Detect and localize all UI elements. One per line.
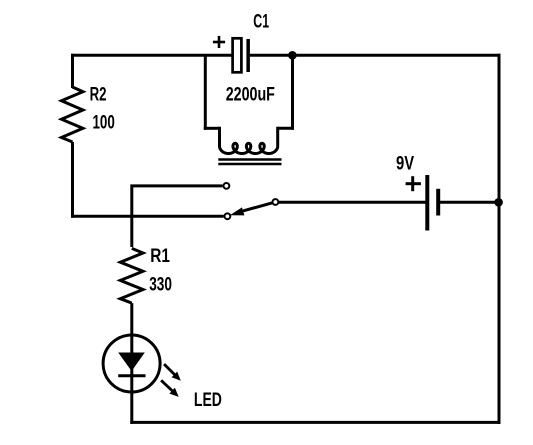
wire top rail right segment [250,54,501,57]
svg-text:R1: R1 [150,246,170,267]
svg-text:C1: C1 [253,12,269,33]
svg-text:330: 330 [149,275,172,296]
LED D1 circle [103,335,160,392]
resistor R1 [120,248,143,303]
junction dot battery / right rail [494,198,503,207]
svg-text:LED: LED [194,390,222,411]
switch pivot contact [273,199,279,205]
wire capacitor loop right step [278,127,294,130]
wire capacitor loop right vertical [291,55,294,130]
LED light arrow 2 [161,380,179,397]
relay core line 1 [218,158,281,161]
wire switch upper (to NC contact) [132,186,223,247]
wire capacitor loop left vertical [204,55,207,130]
battery B1 negative plate [436,189,440,216]
wire top rail left segment [71,54,232,57]
svg-text:R2: R2 [90,85,107,106]
relay coil L1 [220,127,278,154]
battery B1 positive plate [425,175,429,231]
wire bottom rail [130,421,500,424]
wire switch lower (left rail to NO contact) [71,215,224,218]
wire pivot to battery [278,201,426,204]
wire R1 to LED to bottom rail [130,303,133,424]
switch contact NO [225,213,231,219]
LED D1 anode triangle [118,353,145,372]
relay core line 2 [218,163,281,166]
battery plus sign [406,176,421,191]
LED light arrow 1 [164,364,181,381]
LED D1 cathode bar [118,374,145,377]
resistor R2 [62,87,83,142]
wire battery to right rail [440,201,499,204]
capacitor C1 [233,38,250,72]
switch contact NC [224,183,230,189]
switch lever arm with arrowhead [230,203,273,216]
wire left rail upper (top corner to R2) [71,54,74,88]
wire right rail [498,54,501,424]
svg-text:100: 100 [93,113,115,134]
svg-text:2200uF: 2200uF [226,85,275,106]
wire capacitor loop left step [204,127,220,130]
capacitor C1 plus sign [213,36,225,48]
svg-text:9V: 9V [396,154,414,175]
wire left rail lower (R2 to switch wire) [71,142,74,218]
junction dot top rail / coil right [288,51,297,60]
